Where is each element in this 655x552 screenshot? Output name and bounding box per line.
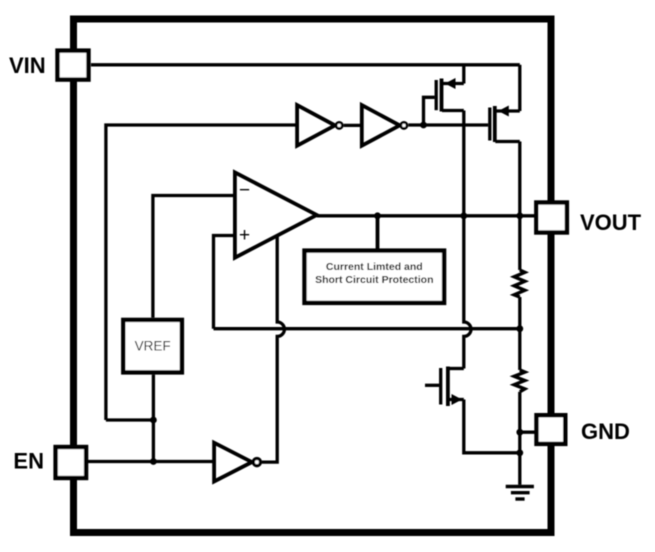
pin pad VIN	[58, 51, 89, 80]
wire Q1 drain down with hop over feedback	[464, 111, 471, 369]
transistor Q2 PMOS pass	[490, 106, 520, 143]
wire EN net bottom link	[106, 418, 153, 421]
wire node to Q1 gate	[424, 97, 435, 125]
wire to ground symbol	[518, 453, 521, 485]
inverter U3	[362, 105, 407, 146]
inverter U2	[297, 105, 342, 146]
IC boundary box	[74, 19, 552, 533]
wire inverting input from VREF	[153, 196, 235, 318]
node output and Q1 drain	[460, 212, 467, 219]
wire Q2 drain to VOUT line	[518, 142, 521, 216]
node GND pad junction	[516, 429, 523, 436]
transistor Q1 PMOS	[436, 78, 464, 112]
node output to protection box	[374, 212, 381, 219]
VREF box	[123, 320, 182, 373]
wire op-amp output to VOUT pad	[317, 214, 537, 217]
wire U2 to U3	[344, 124, 362, 127]
svg-text:VOUT: VOUT	[580, 210, 642, 235]
svg-text:EN: EN	[13, 449, 44, 474]
node VREF EN junction	[150, 417, 157, 424]
node Q3 source junction	[516, 449, 523, 456]
svg-text:GND: GND	[581, 419, 630, 444]
inverter U4	[214, 443, 260, 482]
svg-text:Short Circuit Protection: Short Circuit Protection	[315, 274, 433, 286]
svg-text:−: −	[239, 180, 250, 201]
svg-text:VREF: VREF	[135, 339, 171, 354]
node output and Q2 drain	[516, 212, 523, 219]
pin pad GND	[537, 415, 566, 444]
svg-text:+: +	[239, 225, 250, 246]
wire EN pad to inverter U4	[88, 460, 214, 463]
node feedback junction	[516, 325, 523, 332]
ground	[506, 487, 534, 500]
wire VIN rail	[91, 63, 520, 66]
resistor R2	[514, 329, 525, 453]
pin pad VOUT	[536, 203, 567, 233]
svg-text:VIN: VIN	[9, 53, 46, 78]
op-amp U1	[235, 172, 317, 257]
wire EN net left riser	[106, 125, 297, 420]
transistor Q3 NMOS	[425, 367, 464, 407]
pin pad EN	[56, 447, 87, 478]
svg-text:Current Limted and: Current Limted and	[326, 261, 423, 273]
node EN line junction	[150, 458, 157, 465]
wire VIN rail drop to Q2 source	[518, 65, 521, 111]
wire to GND pad	[520, 431, 537, 434]
wire non-inverting input to feedback	[214, 236, 235, 329]
wire branch to Q1 source	[462, 65, 465, 84]
wire Q3 source to ground chain	[464, 400, 520, 453]
resistor R1	[514, 216, 525, 329]
node gate drive junction	[420, 122, 427, 129]
wire U3 output to Q2 gate	[408, 123, 488, 126]
wire VREF bottom to EN line	[152, 375, 155, 462]
wire feedback line	[214, 327, 520, 330]
wire U4 output riser with hop	[262, 236, 284, 462]
wire stub to protection box	[376, 216, 380, 249]
current limit protection box	[305, 251, 445, 303]
